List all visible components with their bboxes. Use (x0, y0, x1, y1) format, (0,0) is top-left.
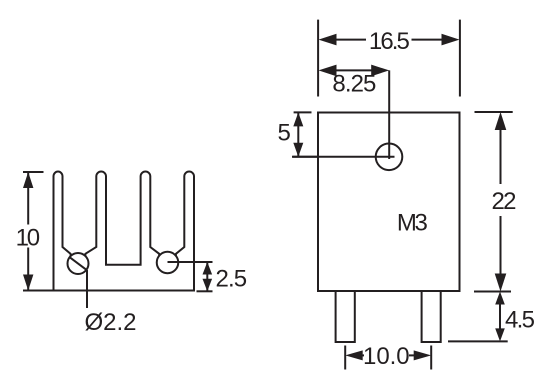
dimension 10.0 (pin spacing) (345, 346, 431, 370)
leader line for diameter label (86, 270, 88, 308)
mounting hole M3 (293, 70, 403, 170)
svg-text:Ø2.2: Ø2.2 (85, 309, 137, 336)
hole left (screw) circle (68, 253, 89, 274)
hole right circle (157, 252, 179, 274)
dimension 4.5 (pin length) (448, 292, 508, 342)
pin left (336, 291, 355, 342)
svg-text:10: 10 (16, 224, 41, 251)
dimension 2.5 (hole center height) (168, 262, 213, 291)
dimension 10 (fin height) (23, 172, 54, 291)
svg-text:10.0: 10.0 (363, 343, 410, 370)
pin right (422, 291, 441, 342)
dimension 8.25 (hole center x) (319, 65, 390, 77)
dimension 5 (hole center y) (292, 112, 318, 156)
svg-text:M3: M3 (397, 209, 428, 236)
svg-text:16.5: 16.5 (369, 28, 410, 55)
svg-text:4.5: 4.5 (505, 306, 535, 333)
dimension 16.5 (overall width) (318, 20, 460, 97)
svg-text:2.5: 2.5 (216, 266, 248, 293)
heatsink front-view body outline (54, 172, 195, 291)
screw slash (70, 257, 87, 270)
dimension 22 (body height) (474, 112, 513, 292)
side-view body rectangle (318, 113, 460, 292)
svg-text:8.25: 8.25 (332, 70, 376, 97)
svg-text:5: 5 (278, 120, 291, 147)
svg-text:22: 22 (492, 188, 517, 215)
